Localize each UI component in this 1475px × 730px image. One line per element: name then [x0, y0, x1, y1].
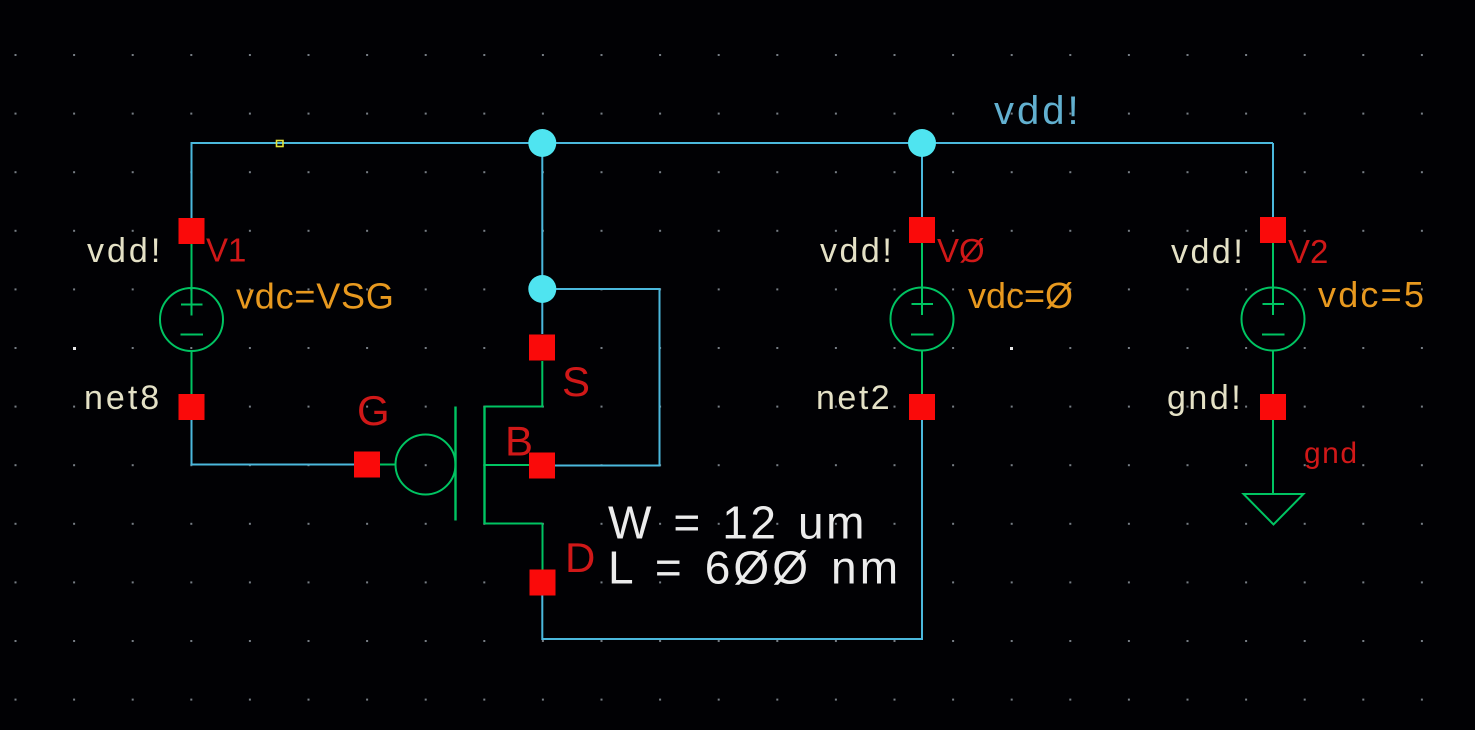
svg-text:G: G [357, 387, 390, 434]
transistor PMOS [380, 361, 543, 570]
wire S loop to bulk [542, 289, 659, 466]
svg-text:V1: V1 [206, 232, 246, 269]
pin vdd! of V2 [1260, 217, 1286, 243]
wire net8 to gate [192, 420, 355, 465]
svg-text:D: D [565, 534, 595, 581]
voltage source V0 [891, 243, 954, 395]
node junction on rail left [528, 129, 556, 157]
pin B of PMOS [529, 453, 555, 479]
wire drop to S node [541, 143, 543, 334]
wire drain to net2 [542, 420, 922, 640]
pin net8 of V1 [179, 394, 205, 420]
voltage source V2 [1242, 243, 1305, 494]
svg-text:S: S [562, 358, 590, 405]
pin D of PMOS [530, 570, 556, 596]
svg-text:vdd!: vdd! [1171, 233, 1245, 271]
wire drop to V2 [1272, 143, 1274, 217]
pin S of PMOS [529, 335, 555, 361]
wire drop to V0 [921, 143, 923, 217]
wire vdd! top rail [192, 142, 1274, 144]
svg-text:gnd: gnd [1304, 437, 1359, 470]
svg-text:B: B [505, 418, 533, 465]
voltage source V1 [160, 244, 223, 394]
svg-text:VØ: VØ [937, 232, 985, 269]
probe marker on rail [277, 141, 284, 147]
pin G of PMOS [354, 452, 380, 478]
pin vdd! of V0 [909, 217, 935, 243]
svg-text:gnd!: gnd! [1167, 379, 1243, 417]
svg-text:vdc=5: vdc=5 [1318, 274, 1426, 315]
ground gnd symbol [1244, 494, 1304, 525]
svg-text:vdc=Ø: vdc=Ø [968, 275, 1073, 316]
node junction on rail right [908, 129, 936, 157]
wire left drop to V1 [191, 142, 193, 219]
svg-text:vdc=VSG: vdc=VSG [236, 276, 395, 317]
pin net2 of V0 [909, 394, 935, 420]
pin vdd! of V1 [179, 218, 205, 244]
svg-text:vdd!: vdd! [994, 89, 1082, 133]
pin gnd! of V2 [1260, 394, 1286, 420]
svg-text:vdd!: vdd! [87, 232, 163, 270]
svg-text:vdd!: vdd! [820, 232, 894, 270]
svg-text:L = 6ØØ nm: L = 6ØØ nm [608, 542, 901, 594]
svg-text:V2: V2 [1288, 233, 1328, 270]
svg-text:net2: net2 [816, 379, 892, 417]
node S junction [528, 275, 556, 303]
svg-text:net8: net8 [84, 379, 162, 417]
